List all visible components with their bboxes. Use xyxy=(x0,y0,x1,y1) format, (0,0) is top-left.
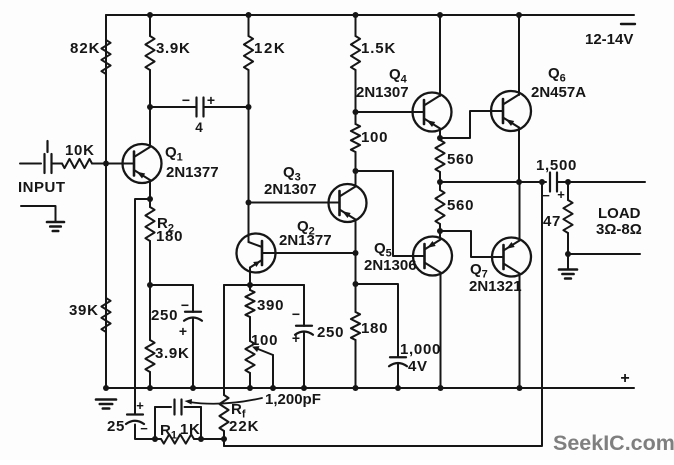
resistor 82K xyxy=(101,40,110,74)
ground bottom left xyxy=(96,398,116,401)
svg-text:2N1307: 2N1307 xyxy=(264,181,317,198)
transistor Q3 xyxy=(329,184,367,222)
wire Q4 emitter to Q6 base xyxy=(440,111,503,138)
svg-text:1K: 1K xyxy=(180,421,201,438)
svg-text:+: + xyxy=(292,330,300,346)
wire 47 top xyxy=(567,182,569,200)
wire 1000uF to ground rail xyxy=(397,364,399,388)
wire Q7 lower to ground rail xyxy=(519,274,521,389)
transistor Q1 xyxy=(123,144,162,183)
node Q4 emitter xyxy=(437,135,443,141)
wire bypass node to 250 cap xyxy=(150,285,193,312)
resistor 390 xyxy=(245,290,254,317)
wire pot to ground rail xyxy=(249,373,251,388)
svg-text:+: + xyxy=(207,92,215,108)
node input junction on left rail xyxy=(103,161,109,167)
svg-text:10K: 10K xyxy=(65,142,95,159)
wire 560 lower to Q5 collector xyxy=(439,224,441,237)
wire Q6 collector to top rail xyxy=(518,15,520,95)
wire 47 bottom xyxy=(567,233,569,254)
wire feedback drop to Rf xyxy=(223,285,225,395)
wire 12K node down to Q3 base tap xyxy=(248,107,250,242)
resistor 10K xyxy=(62,159,92,168)
resistor 47 xyxy=(563,200,572,233)
capacitor 1500 output xyxy=(549,173,551,192)
wire to 1000uF cap xyxy=(356,284,399,357)
transistor Q5 xyxy=(413,237,452,276)
wire Q2 emitter xyxy=(249,268,251,291)
svg-text:100: 100 xyxy=(361,129,388,146)
resistor 180 middle xyxy=(351,312,360,340)
svg-text:39K: 39K xyxy=(69,302,99,319)
wire 250 left to ground rail xyxy=(192,319,194,389)
wire output right xyxy=(558,181,646,183)
node wiper ground xyxy=(270,385,276,391)
node 47 tap xyxy=(565,179,571,185)
node Q2 collector xyxy=(353,250,359,256)
wire R1 right to Rf node xyxy=(194,438,224,440)
resistor 39K xyxy=(101,298,110,332)
wire feedback return to output xyxy=(224,182,542,446)
node 250 right ground xyxy=(301,385,307,391)
node Q3 collector xyxy=(353,168,359,174)
node Q5 collector xyxy=(437,228,443,234)
node Q6 collector top xyxy=(516,12,522,18)
resistor Rf 22K xyxy=(219,395,228,431)
wire left bias rail xyxy=(105,15,107,388)
wire Q6 emitter to output xyxy=(518,128,520,183)
wire 560 join xyxy=(439,182,441,190)
svg-text:2N1306: 2N1306 xyxy=(364,257,417,274)
svg-text:100: 100 xyxy=(251,332,278,349)
resistor 1.5K xyxy=(351,36,360,70)
svg-text:4V: 4V xyxy=(408,358,428,375)
svg-text:−: − xyxy=(140,421,148,436)
svg-text:+: + xyxy=(136,398,144,413)
svg-text:+: + xyxy=(620,370,629,387)
node cap 4 right xyxy=(246,104,252,110)
wire Q7 upper to output node xyxy=(519,182,521,241)
node 1000uF tap xyxy=(353,281,359,287)
wire R1 network right vertical xyxy=(200,407,202,439)
capacitor 250 right xyxy=(296,325,312,327)
wire Q1 emitter xyxy=(149,180,151,207)
svg-text:1,500: 1,500 xyxy=(536,157,577,174)
wire Q4 base xyxy=(356,111,425,113)
wire node to 250 right cap xyxy=(303,285,305,326)
node Q4 collector top xyxy=(437,12,443,18)
wire Q2 collector xyxy=(274,252,356,254)
wire 3.9K lower to ground rail xyxy=(149,372,151,388)
node emitter bypass xyxy=(147,282,153,288)
node 180 ground xyxy=(353,385,359,391)
supply negative terminal mark xyxy=(621,23,635,25)
svg-text:180: 180 xyxy=(361,320,388,337)
wire top rail to 1.5K xyxy=(355,15,357,36)
svg-text:SeekIC.com: SeekIC.com xyxy=(553,431,674,455)
transistor Q4 xyxy=(413,93,452,132)
svg-text:1.5K: 1.5K xyxy=(361,40,396,57)
svg-text:−: − xyxy=(542,188,550,203)
svg-text:2N1321: 2N1321 xyxy=(469,278,522,295)
node 1000uF ground xyxy=(395,385,401,391)
svg-text:3Ω-8Ω: 3Ω-8Ω xyxy=(596,221,642,238)
resistor 12K xyxy=(244,36,253,70)
svg-text:25: 25 xyxy=(107,418,125,435)
arrow 1200pF pointer xyxy=(189,398,262,404)
wire 250 right to ground rail xyxy=(303,333,305,389)
wire 560 upper to output node xyxy=(439,172,441,182)
node Q1 collector / cap 4 xyxy=(147,104,153,110)
wire Q4 emitter xyxy=(439,129,441,141)
node Q5 emitter ground xyxy=(438,385,444,391)
capacitor 1000uF 4V xyxy=(390,356,406,358)
resistor R2 180 xyxy=(145,207,154,241)
potentiometer wiper arrow xyxy=(258,349,273,355)
wire Q4 collector to top rail xyxy=(439,15,441,96)
svg-text:1,000: 1,000 xyxy=(400,341,441,358)
node 3.9K lower ground xyxy=(147,385,153,391)
wire Q5 collector to Q7 base xyxy=(440,231,504,257)
transistor Q2 xyxy=(237,234,276,273)
svg-text:+: + xyxy=(557,187,565,202)
svg-text:3.9K: 3.9K xyxy=(155,345,190,362)
capacitor 1200pF xyxy=(173,400,175,415)
svg-text:12-14V: 12-14V xyxy=(585,31,633,48)
wire top negative supply rail xyxy=(106,14,634,16)
resistor 100 upper xyxy=(351,124,360,152)
transistor Q6 xyxy=(491,91,531,131)
capacitor input 1uF xyxy=(43,154,45,173)
svg-text:4: 4 xyxy=(195,120,203,135)
wire load return xyxy=(568,253,640,255)
node Q3 base tap xyxy=(246,200,252,206)
resistor 560 upper xyxy=(435,140,444,172)
node R1 left xyxy=(152,436,158,442)
svg-text:390: 390 xyxy=(257,297,284,314)
wire Q2 base bend xyxy=(249,242,263,247)
svg-text:1,200pF: 1,200pF xyxy=(265,391,321,408)
wire wiper to ground rail xyxy=(272,355,274,388)
capacitor 250 left xyxy=(185,311,201,313)
wire 12K to cap4 node xyxy=(248,70,250,107)
wire cap4 left xyxy=(150,106,197,108)
wire bottom ground rail xyxy=(106,387,634,389)
node feedback bottom xyxy=(221,436,227,442)
ground output xyxy=(559,268,577,271)
wire 1.5K to 100 xyxy=(355,70,357,124)
wire 390 to pot 100 xyxy=(249,317,251,341)
wire 25uF to R1 node xyxy=(135,425,161,440)
node 1.5K top xyxy=(353,12,359,18)
wire Q3 emitter chain xyxy=(355,220,357,313)
svg-text:12K: 12K xyxy=(254,40,286,57)
resistor 3.9K upper xyxy=(145,36,154,70)
svg-text:560: 560 xyxy=(447,197,474,214)
wire to output ground xyxy=(567,254,569,269)
wire Q2 emitter node line xyxy=(224,284,304,286)
wire input cap to 10K xyxy=(52,163,63,165)
svg-text:560: 560 xyxy=(447,151,474,168)
node 250 left ground xyxy=(190,385,196,391)
svg-text:2N1377: 2N1377 xyxy=(166,164,219,181)
wire output line left xyxy=(440,181,546,183)
transistor Q7 xyxy=(492,238,531,277)
svg-text:2N1307: 2N1307 xyxy=(356,84,409,101)
wire 180 to ground rail xyxy=(355,340,357,388)
wire top rail to 12K xyxy=(248,15,250,36)
svg-text:2N1377: 2N1377 xyxy=(279,232,332,249)
wire 1200pF left xyxy=(155,406,171,408)
node 560 junction output xyxy=(437,179,443,185)
svg-text:82K: 82K xyxy=(70,40,101,57)
wire cap4 right xyxy=(204,106,249,108)
wire Q5 emitter down xyxy=(440,273,442,389)
wire R1 network left vertical xyxy=(154,407,156,439)
svg-text:INPUT: INPUT xyxy=(18,179,66,196)
node pot bottom xyxy=(247,385,253,391)
wire top rail to 3.9K xyxy=(149,15,151,36)
wire 10K to Q1 base xyxy=(92,163,134,165)
wire Q3 base xyxy=(249,202,340,204)
wire input return xyxy=(21,206,56,222)
svg-text:+: + xyxy=(179,323,187,339)
wire 100 to Q3 collector node xyxy=(355,152,357,185)
wire R2 to node xyxy=(149,241,151,340)
node Q1 emitter xyxy=(147,196,153,202)
node output junction xyxy=(516,179,522,185)
node R1 right xyxy=(198,436,204,442)
svg-text:LOAD: LOAD xyxy=(598,205,641,222)
node 12K top xyxy=(246,12,252,18)
svg-text:180: 180 xyxy=(156,228,183,245)
svg-text:2N457A: 2N457A xyxy=(531,84,586,101)
node 3.9K top xyxy=(147,12,153,18)
svg-text:−: − xyxy=(181,297,189,313)
svg-text:22K: 22K xyxy=(229,418,260,435)
svg-text:3.9K: 3.9K xyxy=(156,40,191,57)
node Q2 emitter xyxy=(247,282,253,288)
wire 1200pF right xyxy=(185,406,202,408)
node feedback tap on output xyxy=(539,179,545,185)
svg-text:250: 250 xyxy=(151,307,178,324)
wire input lead xyxy=(20,163,41,165)
resistor 560 lower xyxy=(435,190,444,224)
potentiometer 100 xyxy=(245,341,254,373)
wire Rf to feedback bottom node xyxy=(223,431,225,446)
resistor R1 1K xyxy=(161,434,194,443)
node load return xyxy=(565,251,571,257)
label capacitor 1 xyxy=(46,141,48,152)
svg-text:−: − xyxy=(292,306,300,322)
node Q7 ground xyxy=(517,385,523,391)
node ground rail left corner xyxy=(103,385,109,391)
wire 3.9K to Q1 collector xyxy=(149,70,151,146)
ground input xyxy=(47,221,64,224)
node Q4 base tap xyxy=(353,109,359,115)
capacitor 4uF xyxy=(195,98,197,117)
resistor 3.9K lower xyxy=(145,340,154,372)
capacitor 25uF xyxy=(127,413,143,415)
wire Q1 emitter to 25uF xyxy=(135,199,150,415)
svg-text:47: 47 xyxy=(543,213,561,230)
svg-text:250: 250 xyxy=(317,324,344,341)
wire Q3 collector node to Q5 base xyxy=(356,171,425,256)
svg-text:−: − xyxy=(182,92,190,108)
